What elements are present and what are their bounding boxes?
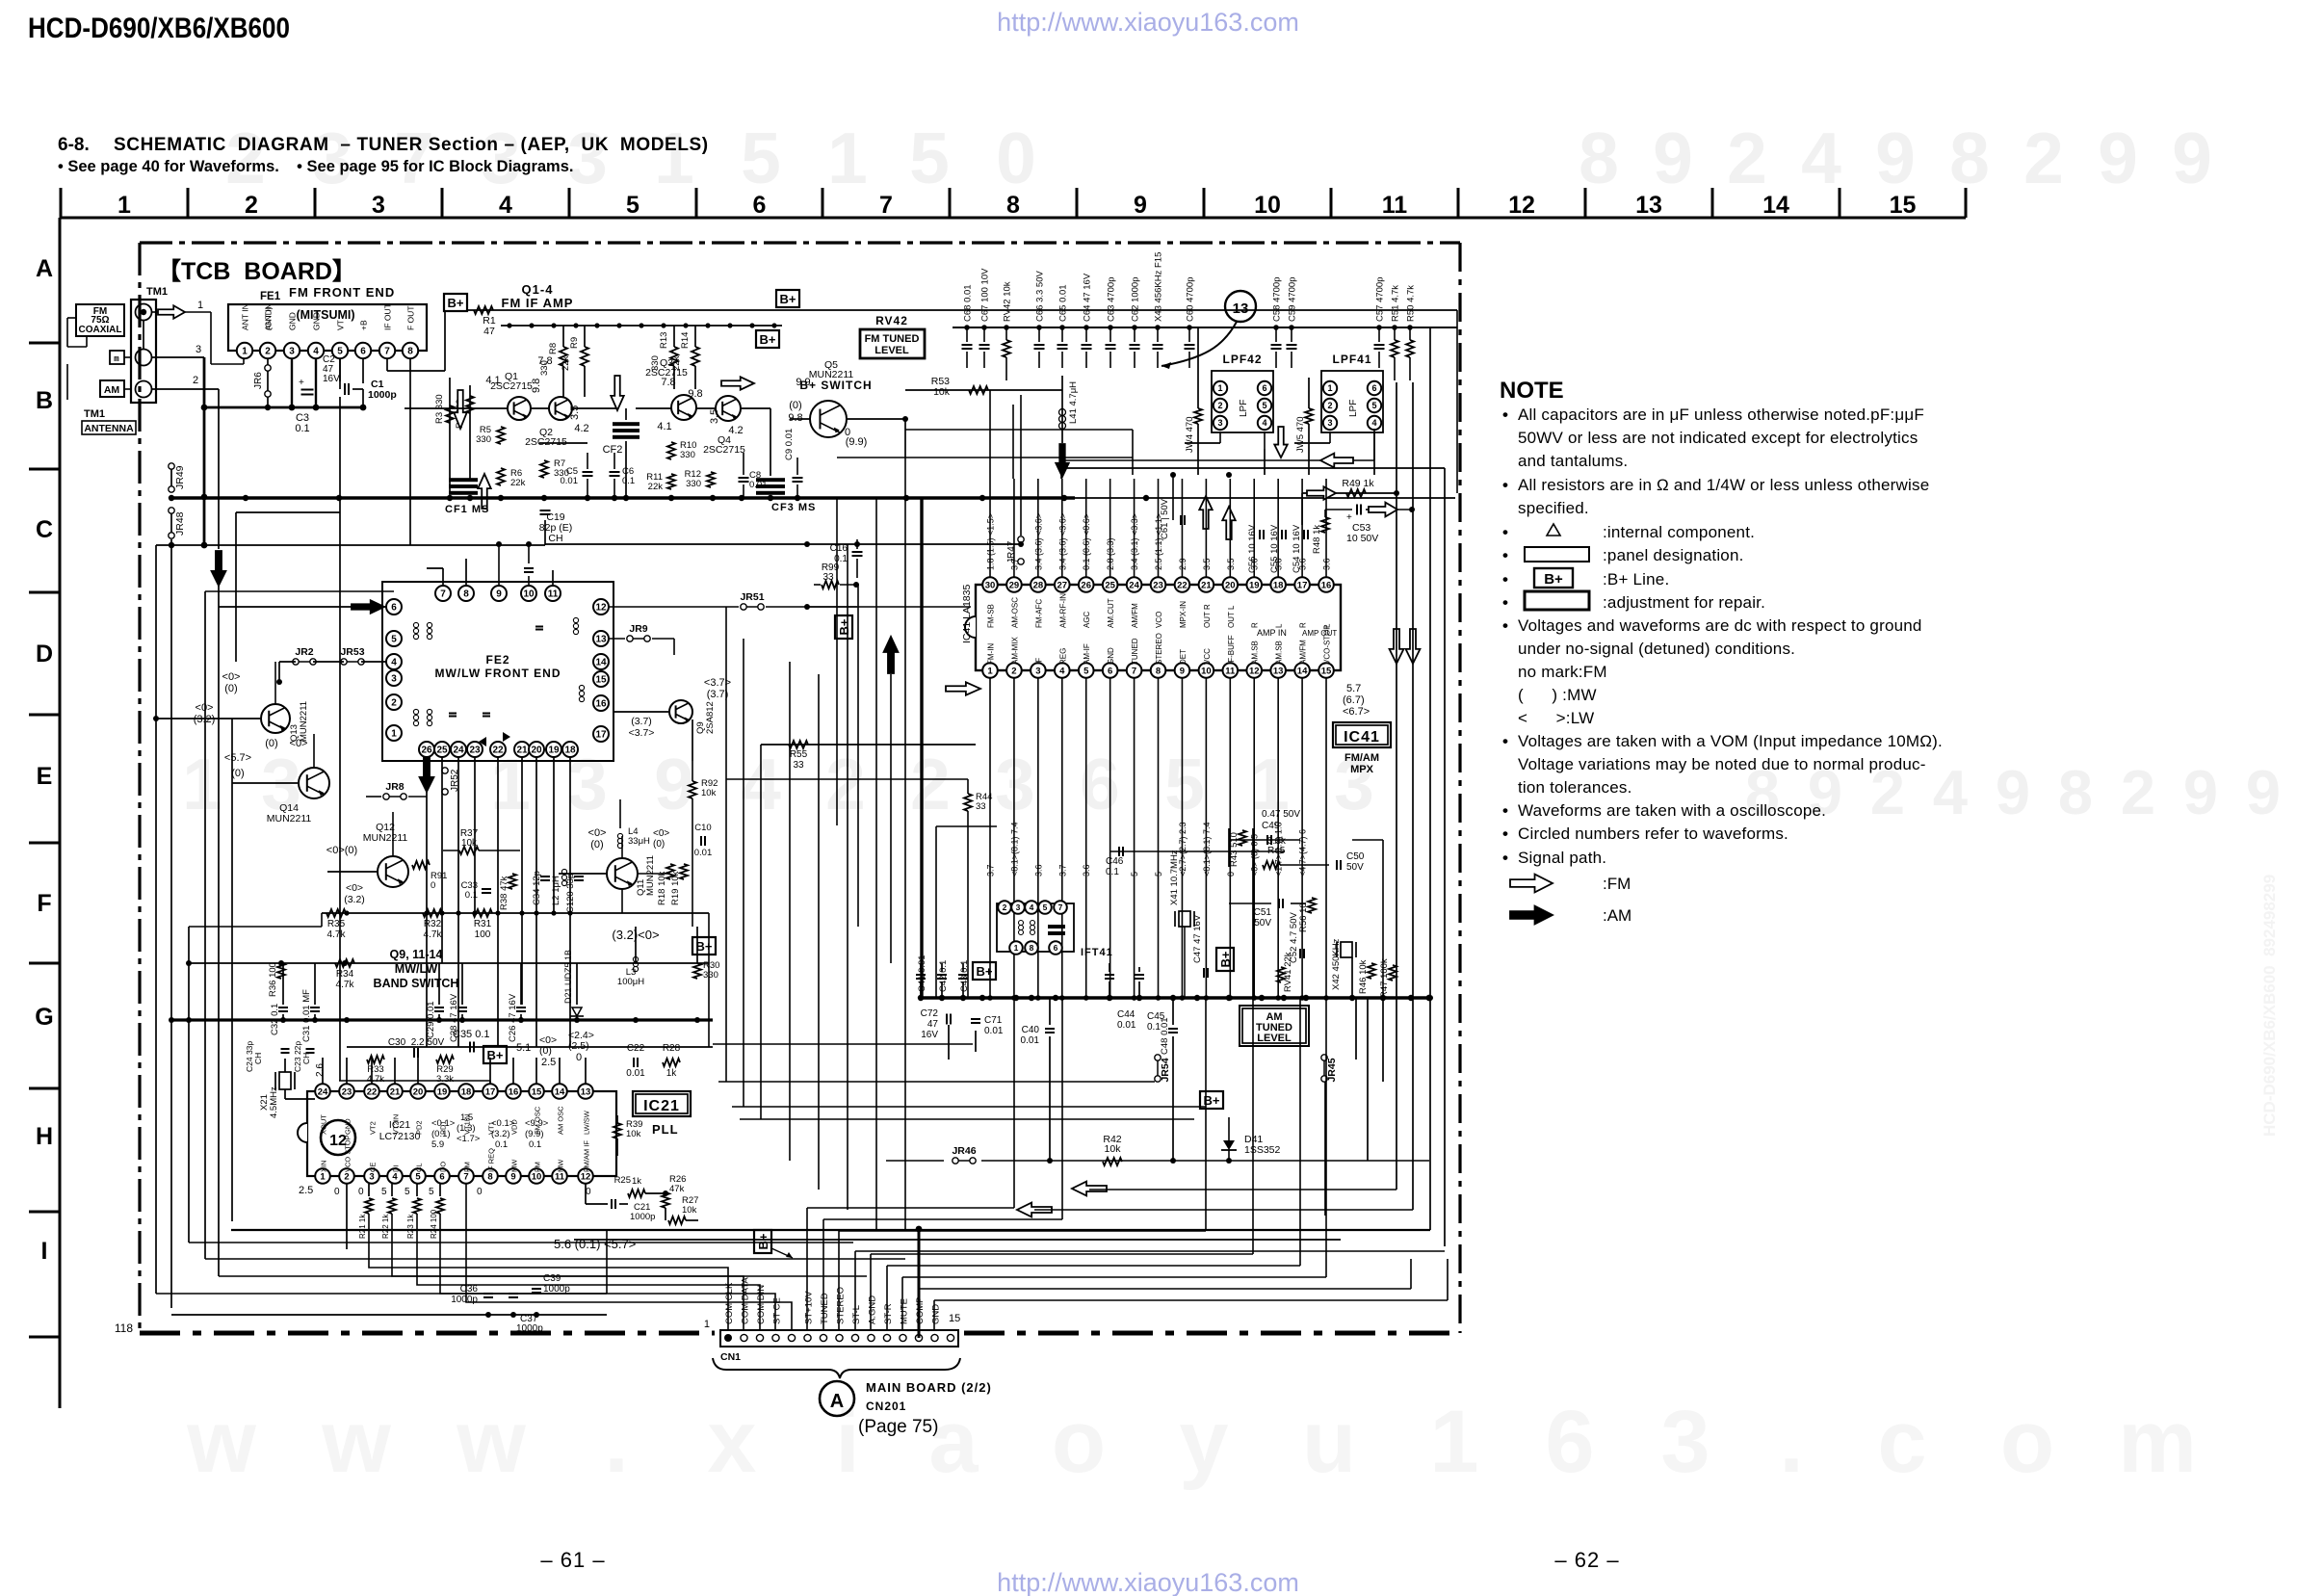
resistor R92 (689, 761, 718, 927)
svg-text:5.7: 5.7 (1346, 683, 1361, 694)
svg-text:http://www.xiaoyu163.com: http://www.xiaoyu163.com (997, 8, 1299, 37)
svg-text:FM-AFC: FM-AFC (1034, 599, 1043, 628)
svg-text:26: 26 (1081, 580, 1091, 590)
svg-text:LW/SW: LW/SW (583, 1110, 591, 1135)
svg-text:FM-SB: FM-SB (987, 604, 996, 628)
svg-text:16V: 16V (323, 374, 340, 384)
wire G area verticals (285, 913, 713, 1099)
svg-text:C9 0.01: C9 0.01 (784, 429, 795, 460)
svg-text:1: 1 (182, 744, 222, 824)
svg-text:C39: C39 (543, 1273, 561, 1284)
title HCD-D690/XB6/XB600 (28, 13, 290, 44)
svg-text:(MITSUMI): (MITSUMI) (296, 308, 354, 322)
zener diode D21 (563, 950, 584, 1016)
svg-text:y: y (1179, 1393, 1228, 1491)
svg-text:Voltages and waveforms are dc: Voltages and waveforms are dc with respe… (1518, 616, 1922, 635)
svg-text:<0>: <0> (222, 671, 241, 683)
IC FE1 FM FRONT END (228, 285, 427, 358)
svg-text:R35: R35 (327, 919, 346, 929)
voltage labels ic21 bottom (299, 1185, 591, 1197)
capacitor C22 (626, 1043, 645, 1079)
capacitor C42 (937, 960, 949, 998)
svg-text:1: 1 (987, 666, 993, 676)
svg-text:5: 5 (337, 347, 343, 357)
svg-text:3: 3 (1035, 666, 1040, 676)
svg-text:http://www.xiaoyu163.com: http://www.xiaoyu163.com (997, 1568, 1299, 1596)
svg-text:FM/AM: FM/AM (1344, 752, 1379, 764)
wire AM top area (1229, 828, 1393, 998)
capacitor C10 (694, 823, 713, 858)
svg-text:(3.2): (3.2) (491, 1129, 510, 1139)
ceramic filter CF1 (445, 478, 489, 515)
svg-text:5: 5 (405, 1187, 410, 1197)
svg-text:29: 29 (1009, 580, 1020, 590)
svg-text:VT2: VT2 (369, 1121, 378, 1135)
svg-text:AM-MIX: AM-MIX (1010, 636, 1019, 665)
capacitor C61 (1160, 475, 1185, 539)
svg-text:1000p: 1000p (451, 1295, 478, 1305)
signal arrow AM into FE2 pin6 (239, 600, 386, 614)
wire band switch rail2 (189, 960, 709, 966)
svg-text:CH: CH (301, 1053, 311, 1064)
svg-text:4: 4 (391, 658, 397, 668)
svg-text:<0.1>: <0.1> (491, 1118, 515, 1129)
wire ic21 right cluster (586, 1177, 698, 1220)
svg-text:30: 30 (985, 580, 996, 590)
svg-text:20: 20 (413, 1086, 424, 1097)
capacitor C8 (739, 453, 768, 498)
svg-text:(9.9): (9.9) (846, 436, 868, 448)
svg-text:17: 17 (595, 730, 607, 741)
transistor Q5 B+ switch (799, 359, 872, 437)
svg-text:OUT L: OUT L (1227, 605, 1236, 628)
svg-text:33: 33 (793, 760, 804, 771)
svg-text:( ) :MW: ( ) :MW (1518, 686, 1597, 704)
connector A circle (820, 1381, 854, 1416)
svg-text:C22: C22 (627, 1043, 645, 1054)
capacitor C51 (1254, 899, 1283, 929)
svg-text:TM1: TM1 (146, 286, 168, 298)
svg-text:6: 6 (391, 603, 397, 614)
svg-text:C26 47 16V: C26 47 16V (508, 993, 518, 1042)
svg-text:19: 19 (437, 1086, 448, 1097)
jumper JR51 (609, 591, 971, 610)
svg-text:LPF: LPF (1239, 400, 1249, 417)
svg-text:1: 1 (1217, 383, 1222, 393)
svg-text:6: 6 (1545, 1393, 1594, 1491)
capacitor C45 (1135, 967, 1165, 1033)
svg-text:8: 8 (1006, 192, 1020, 219)
svg-text:B+: B+ (487, 1048, 504, 1062)
legend AM arrow (1510, 906, 1631, 925)
svg-text:330: 330 (476, 434, 491, 445)
wire FE1 pin5 VT down (236, 358, 340, 1081)
svg-text:X41 10.7MHz: X41 10.7MHz (1169, 850, 1180, 905)
svg-text:C51: C51 (1254, 907, 1272, 918)
svg-text:0.1 (0.6) <0.6>: 0.1 (0.6) <0.6> (1082, 513, 1091, 570)
svg-text:2: 2 (245, 192, 258, 219)
svg-text:IF: IF (1034, 658, 1043, 665)
wire JR row to FE2 pin4 (276, 662, 386, 685)
svg-text:(0.1): (0.1) (431, 1129, 451, 1139)
svg-text:47k: 47k (669, 1184, 685, 1194)
resistor R3 (434, 378, 454, 491)
svg-text:9: 9 (2098, 118, 2138, 198)
svg-text:C58 4700p: C58 4700p (1272, 277, 1283, 322)
grid row ruler (29, 218, 60, 1408)
capacitor C58 (1271, 277, 1283, 368)
jumper JR8 (366, 781, 427, 799)
svg-text:R43 510: R43 510 (1229, 832, 1240, 867)
svg-text:OUT R: OUT R (1203, 604, 1212, 628)
svg-text:(0): (0) (224, 683, 237, 694)
svg-text:JW5 470: JW5 470 (1295, 417, 1306, 454)
jumper JR45 (1321, 1055, 1338, 1083)
svg-text:5: 5 (626, 192, 640, 219)
svg-text:0.1: 0.1 (622, 476, 635, 486)
svg-text:MUTE: MUTE (900, 1298, 910, 1324)
svg-text:8: 8 (1949, 118, 1990, 198)
svg-text:22: 22 (1177, 580, 1188, 590)
svg-text:15: 15 (949, 1313, 960, 1324)
svg-text:F OUT: F OUT (406, 306, 416, 331)
resistor R29 (436, 1056, 454, 1085)
svg-text:33μH: 33μH (628, 836, 650, 847)
signal arrow left lower1 (1072, 1182, 1107, 1196)
AM jack box (100, 380, 124, 397)
svg-text:0: 0 (576, 1052, 582, 1063)
svg-text:R8: R8 (548, 343, 559, 354)
svg-text:FM: FM (463, 1162, 472, 1172)
svg-text:1: 1 (242, 347, 248, 357)
svg-text:0.1: 0.1 (295, 423, 309, 434)
page number 61 (540, 1548, 605, 1572)
svg-text:18: 18 (564, 746, 576, 756)
svg-text:9: 9 (2183, 757, 2218, 827)
svg-text:2: 2 (2023, 118, 2064, 198)
svg-text:4: 4 (1030, 903, 1034, 912)
svg-text:23: 23 (1153, 580, 1163, 590)
svg-text:FM IF AMP: FM IF AMP (502, 296, 574, 310)
svg-text:C57 4700p: C57 4700p (1375, 277, 1386, 322)
svg-text:u: u (1302, 1393, 1356, 1491)
wire IF amp top rail (501, 323, 782, 327)
svg-text:E: E (37, 763, 53, 790)
wire lpf area (1059, 371, 1445, 478)
svg-text:3.5: 3.5 (569, 406, 581, 420)
svg-text:<8.1>(8.1) 7.4: <8.1>(8.1) 7.4 (1009, 822, 1019, 876)
resistor R12 (685, 469, 715, 489)
capacitor C56 (1247, 524, 1264, 573)
svg-text:(GND): (GND) (264, 306, 274, 330)
svg-text:and tantalums.: and tantalums. (1518, 452, 1628, 470)
svg-text:<0>(0): <0>(0) (326, 845, 357, 856)
svg-text:CF2: CF2 (603, 444, 623, 456)
svg-text:GND: GND (288, 312, 298, 330)
wire jack to TM1 (67, 318, 131, 400)
svg-text:ANT IN: ANT IN (241, 303, 250, 330)
svg-text:1000p: 1000p (516, 1323, 543, 1334)
svg-text:•: • (1502, 523, 1508, 541)
capacitor C66 (1034, 271, 1046, 368)
legend FM arrow (1510, 875, 1631, 893)
svg-text:0.1: 0.1 (495, 1139, 508, 1150)
svg-text:(3.2): (3.2) (194, 714, 216, 725)
svg-text:100μH: 100μH (617, 977, 644, 987)
svg-text:AMP IN: AMP IN (1257, 628, 1287, 638)
capacitor C50 (1337, 851, 1365, 873)
svg-text:18: 18 (1273, 580, 1284, 590)
svg-text:6: 6 (439, 1171, 444, 1182)
svg-text:R55: R55 (790, 749, 808, 760)
svg-text:IF OUT: IF OUT (383, 303, 393, 330)
jumper JR2 (293, 646, 316, 665)
svg-text:0.1: 0.1 (529, 1139, 541, 1150)
svg-text:m: m (2118, 1393, 2197, 1491)
svg-text:3: 3 (369, 1171, 374, 1182)
resistor R18 (657, 864, 674, 905)
capacitor C72 (921, 998, 951, 1040)
signal arrow left mid (1062, 429, 1374, 467)
svg-text:6: 6 (753, 192, 767, 219)
svg-text:LPF: LPF (1348, 400, 1359, 417)
svg-text:x: x (707, 1393, 756, 1491)
resistor R50 (1406, 285, 1417, 380)
resistor R53 (905, 376, 1062, 398)
svg-text:6: 6 (1054, 943, 1058, 953)
capacitor C59 (1287, 277, 1298, 368)
page number 62 (1554, 1548, 1619, 1572)
svg-text:specified.: specified. (1518, 499, 1589, 517)
svg-text:4: 4 (1801, 118, 1841, 198)
transistor Q13 (156, 671, 309, 742)
svg-text:– 62 –: – 62 – (1554, 1548, 1619, 1572)
svg-text:0.1: 0.1 (465, 890, 478, 901)
svg-text:1: 1 (320, 1171, 326, 1182)
svg-text:AM.CUT: AM.CUT (1107, 598, 1115, 628)
wire band switch rail1 (322, 910, 709, 915)
svg-text:CF1 MS: CF1 MS (445, 504, 489, 515)
svg-text:14: 14 (1297, 666, 1308, 676)
signal arrow after Q4 (721, 377, 754, 390)
svg-text:<3.7>: <3.7> (704, 677, 731, 689)
svg-text:15: 15 (1321, 666, 1332, 676)
svg-text:3.4 (3.6) <3.6>: 3.4 (3.6) <3.6> (1057, 513, 1067, 570)
resistor R19 (670, 864, 688, 905)
signal arrow AM down left (212, 545, 239, 607)
svg-text:C63 4700p: C63 4700p (1107, 277, 1117, 322)
svg-text:6: 6 (1262, 383, 1266, 393)
B+ symbol band (692, 937, 716, 955)
svg-text:3.5: 3.5 (1202, 558, 1212, 570)
voltage labels IF amp (485, 355, 867, 448)
svg-text:2: 2 (391, 698, 397, 709)
svg-text:14: 14 (1762, 192, 1789, 219)
svg-text:B+: B+ (696, 939, 713, 954)
capacitor C1 (340, 358, 397, 407)
svg-text:<4.7>(4.7) 6: <4.7>(4.7) 6 (1298, 829, 1308, 876)
svg-text:•: • (1502, 476, 1508, 494)
svg-text:3.5: 3.5 (709, 409, 720, 424)
svg-text:1k: 1k (666, 1068, 678, 1079)
capacitor C55 (1269, 524, 1286, 573)
svg-text:3.6: 3.6 (1250, 558, 1260, 570)
svg-text:10: 10 (1201, 666, 1212, 676)
svg-text:C48 0.01: C48 0.01 (1160, 1017, 1170, 1055)
capacitor C54 (1292, 524, 1308, 573)
svg-text:10: 10 (523, 589, 535, 600)
svg-text:9: 9 (1875, 118, 1916, 198)
svg-text:27: 27 (1057, 580, 1068, 590)
svg-text:Waveforms are taken with a osc: Waveforms are taken with a oscilloscope. (1518, 801, 1826, 820)
svg-text:JR9: JR9 (629, 623, 647, 635)
svg-text:4.1: 4.1 (657, 421, 671, 432)
svg-text:3.7: 3.7 (1057, 864, 1067, 876)
svg-text:TUNED: TUNED (1131, 638, 1139, 665)
svg-text:H: H (36, 1123, 53, 1150)
svg-text:LPF42: LPF42 (1222, 353, 1262, 366)
svg-text:JR53: JR53 (340, 646, 364, 658)
crystal X42 (1331, 938, 1356, 990)
jumper JR54 (1155, 1055, 1171, 1083)
svg-text:•: • (1502, 406, 1508, 424)
svg-text:3: 3 (1660, 1393, 1710, 1491)
svg-text:FE1: FE1 (260, 291, 281, 302)
resistor R46 (1358, 959, 1375, 994)
resistor R5 (476, 425, 505, 445)
svg-text:1: 1 (1014, 943, 1019, 953)
TCB board dashed outline (115, 243, 1460, 1335)
waveform mark 13 (1162, 291, 1256, 369)
svg-text:17: 17 (1297, 580, 1308, 590)
svg-text:D: D (36, 641, 53, 667)
svg-text:6: 6 (1108, 666, 1112, 676)
svg-text:2: 2 (1003, 903, 1007, 912)
svg-text:L41 4.7μH: L41 4.7μH (1068, 381, 1079, 424)
svg-text:R56 10: R56 10 (1298, 903, 1309, 932)
svg-text:330: 330 (686, 479, 701, 489)
svg-text:0: 0 (586, 1187, 591, 1197)
svg-text:3: 3 (1016, 903, 1021, 912)
svg-text:330: 330 (703, 970, 718, 981)
svg-text:11: 11 (1382, 192, 1408, 219)
svg-text:MAIN BOARD (2/2): MAIN BOARD (2/2) (866, 1380, 992, 1395)
svg-text:14: 14 (555, 1086, 565, 1097)
svg-text:STEREO: STEREO (836, 1287, 847, 1324)
svg-text:21: 21 (390, 1086, 401, 1097)
jumper JR48 (169, 508, 186, 538)
capacitor C33 (461, 880, 491, 901)
svg-text:DI: DI (392, 1165, 401, 1173)
svg-text:+B: +B (359, 320, 369, 330)
resistor R26 (662, 1174, 686, 1208)
svg-text:• See page 40 for Waveforms.: • See page 40 for Waveforms. • See page … (58, 158, 573, 175)
svg-text:7: 7 (463, 1171, 468, 1182)
resistor R2 (455, 385, 474, 482)
svg-text:B+: B+ (448, 296, 464, 310)
svg-text:0.01: 0.01 (561, 476, 579, 486)
svg-text:C67 100 10V: C67 100 10V (980, 268, 991, 322)
svg-text:100: 100 (475, 929, 491, 940)
capacitor C67 (979, 268, 991, 368)
B+ symbol (444, 294, 467, 311)
wire IC21 to CN1 bundle (347, 1184, 792, 1330)
svg-text:JR48: JR48 (174, 511, 186, 536)
wire AM area below bus (713, 954, 1429, 1164)
svg-text:MW/LW FRONT END: MW/LW FRONT END (435, 667, 561, 680)
svg-text:10: 10 (532, 1171, 542, 1182)
resistor R7 (540, 458, 569, 479)
svg-text:MPX-IN: MPX-IN (1179, 601, 1188, 628)
capacitor C53 (1325, 505, 1415, 545)
svg-text:4.2: 4.2 (574, 423, 588, 434)
jumper JR47 (1006, 395, 1024, 564)
svg-text:2.9: 2.9 (1178, 558, 1188, 570)
svg-text:7: 7 (1058, 903, 1063, 912)
wire heavy AM bus (918, 995, 1433, 1002)
wire FE1 pin7 IF OUT (387, 310, 445, 371)
svg-text:Signal path.: Signal path. (1518, 849, 1606, 867)
capacitor C26 (508, 993, 526, 1042)
svg-text:25: 25 (436, 746, 448, 756)
signal arrow left lower2 (1017, 1203, 1052, 1217)
svg-text:AGC: AGC (1083, 611, 1091, 628)
svg-text:20: 20 (1225, 580, 1236, 590)
svg-text:•: • (1502, 732, 1508, 750)
IC FE2 MW/LW FRONT END (382, 582, 613, 761)
wire Q1 bias row (405, 408, 908, 462)
svg-text:(0): (0) (653, 839, 665, 850)
resistor R32 (423, 909, 442, 940)
svg-text:AM.SB: AM.SB (1275, 641, 1284, 665)
capacitor C44 (1105, 963, 1136, 1031)
svg-text:C46: C46 (1106, 856, 1124, 867)
svg-text:•: • (1502, 801, 1508, 820)
svg-text:5: 5 (1371, 401, 1376, 410)
svg-text:BAND SWITCH: BAND SWITCH (374, 977, 459, 990)
svg-text:R24 100: R24 100 (430, 1209, 438, 1239)
svg-text:C10: C10 (694, 823, 711, 833)
capacitor C19 (539, 510, 572, 544)
svg-text:7.8: 7.8 (537, 355, 552, 367)
svg-text:2SC2715: 2SC2715 (525, 436, 567, 448)
capacitor C36 (451, 1284, 493, 1305)
svg-text:7: 7 (879, 192, 893, 219)
svg-text:MUN2211: MUN2211 (267, 813, 312, 824)
svg-text:5.1: 5.1 (516, 1042, 531, 1054)
resistor R42 (1103, 1134, 1122, 1165)
svg-text:9: 9 (1996, 757, 2030, 827)
svg-text:•: • (1502, 616, 1508, 635)
svg-text:22: 22 (492, 746, 504, 756)
diode D41 (1221, 1117, 1281, 1162)
wire thick AM drop (920, 498, 923, 998)
resistor R11 (646, 472, 675, 492)
svg-text:0: 0 (334, 1187, 340, 1197)
svg-text:10 50V: 10 50V (1346, 533, 1378, 544)
resistor R27 (668, 1195, 698, 1224)
capacitor C52 (1289, 912, 1304, 963)
resistor R8 (539, 326, 567, 397)
transistor Q1 (490, 371, 533, 420)
svg-text:D21 UDZ5.1B: D21 UDZ5.1B (563, 950, 573, 1004)
svg-text:•: • (1502, 849, 1508, 867)
svg-text:FM-IN: FM-IN (987, 643, 996, 665)
svg-text:CN1: CN1 (720, 1351, 741, 1363)
svg-text:C66 3.3 50V: C66 3.3 50V (1035, 271, 1046, 322)
svg-text:STEREO: STEREO (1155, 633, 1163, 665)
svg-text:3.6: 3.6 (1274, 558, 1284, 570)
